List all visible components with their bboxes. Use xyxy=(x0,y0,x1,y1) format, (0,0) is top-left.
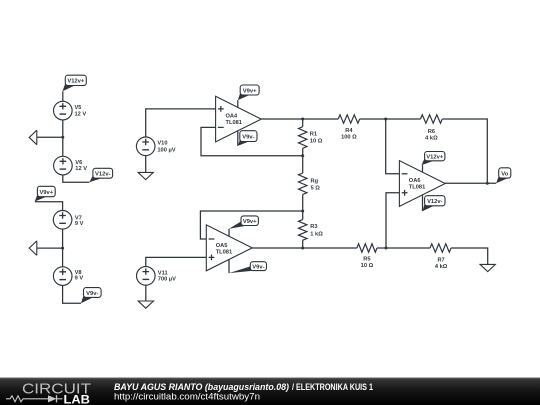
svg-text:10 Ω: 10 Ω xyxy=(361,263,374,269)
svg-text:V12v+: V12v+ xyxy=(426,154,444,160)
svg-text:OA4: OA4 xyxy=(226,113,239,119)
svg-text:9 V: 9 V xyxy=(75,221,84,227)
svg-text:V11: V11 xyxy=(158,270,168,276)
svg-text:700 µV: 700 µV xyxy=(158,277,176,283)
svg-text:V9v-: V9v- xyxy=(242,134,254,140)
svg-text:9 V: 9 V xyxy=(75,275,84,281)
svg-text:100 Ω: 100 Ω xyxy=(341,134,357,140)
svg-text:R1: R1 xyxy=(310,131,317,137)
svg-text:12 V: 12 V xyxy=(75,112,87,118)
svg-text:V9v+: V9v+ xyxy=(39,190,53,196)
svg-text:Rg: Rg xyxy=(311,179,319,185)
svg-text:V12v+: V12v+ xyxy=(67,79,85,85)
svg-text:R4: R4 xyxy=(345,128,353,134)
svg-text:R6: R6 xyxy=(428,129,435,135)
svg-text:12 V: 12 V xyxy=(75,166,87,172)
svg-text:100 µV: 100 µV xyxy=(157,148,175,154)
svg-text:V9v-: V9v- xyxy=(252,264,264,270)
svg-text:4 kΩ: 4 kΩ xyxy=(435,264,448,270)
svg-text:V9v+: V9v+ xyxy=(243,88,257,94)
svg-text:LAB: LAB xyxy=(64,394,91,405)
svg-text:R5: R5 xyxy=(363,256,370,262)
svg-text:R7: R7 xyxy=(437,258,444,264)
svg-text:1 kΩ: 1 kΩ xyxy=(310,231,323,237)
svg-text:V12v-: V12v- xyxy=(95,172,111,178)
svg-text:R3: R3 xyxy=(310,224,317,230)
svg-text:TL081: TL081 xyxy=(216,249,232,255)
svg-text:Vo: Vo xyxy=(501,171,508,177)
svg-text:OA6: OA6 xyxy=(409,178,421,184)
svg-text:V12v-: V12v- xyxy=(427,199,443,205)
svg-text:5 Ω: 5 Ω xyxy=(311,186,321,192)
svg-text:TL081: TL081 xyxy=(409,184,425,190)
svg-text:V10: V10 xyxy=(157,141,167,147)
svg-text:V5: V5 xyxy=(75,105,82,111)
svg-text:TL081: TL081 xyxy=(226,120,242,126)
svg-text:10 Ω: 10 Ω xyxy=(310,138,323,144)
svg-text:4 kΩ: 4 kΩ xyxy=(425,135,438,141)
svg-text:/ ELEKTRONIKA KUIS 1: / ELEKTRONIKA KUIS 1 xyxy=(292,382,373,392)
svg-text:V9v+: V9v+ xyxy=(243,219,257,225)
svg-text:http://circuitlab.com/ct4ftsut: http://circuitlab.com/ct4ftsutwby7n xyxy=(114,391,260,401)
svg-text:OA5: OA5 xyxy=(216,243,228,249)
svg-text:V9v-: V9v- xyxy=(86,291,98,297)
